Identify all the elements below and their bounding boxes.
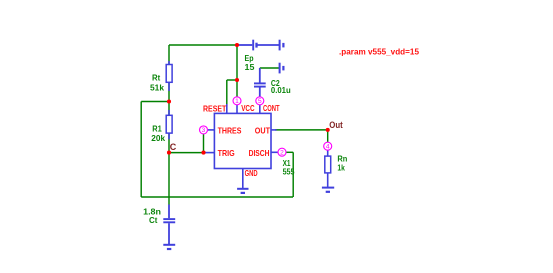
wire VCC drop	[236, 45, 238, 97]
pin stub DISCH	[271, 151, 278, 153]
resistor Rn	[325, 151, 331, 188]
junction dot at battery/VCC	[235, 43, 239, 47]
svg-text:TRIG: TRIG	[218, 148, 235, 158]
svg-text:1: 1	[235, 98, 239, 105]
wire TRIG from node C	[169, 152, 206, 154]
svg-text:2: 2	[280, 149, 284, 156]
svg-text:20k: 20k	[151, 133, 165, 143]
op-amp U1: 555 IC box X1	[214, 113, 271, 168]
svg-text:5: 5	[258, 98, 262, 105]
svg-text:15: 15	[245, 62, 255, 72]
svg-text:VCC: VCC	[241, 103, 254, 113]
wire DISCH from pin circle to vertical	[286, 151, 293, 153]
wire top rail from Rt top to battery junction	[169, 44, 237, 46]
svg-text:4: 4	[326, 143, 330, 150]
junction dot node C	[167, 151, 171, 155]
ground (below Rn)	[322, 188, 334, 192]
wire DISCH right vertical	[292, 152, 294, 197]
pin stub CONT	[259, 105, 261, 114]
svg-text:RESET: RESET	[203, 104, 227, 114]
svg-text:Ct: Ct	[149, 215, 158, 225]
wire RESET branch vertical	[226, 80, 228, 106]
capacitor C2	[254, 68, 266, 97]
wire C2 top to ground	[260, 67, 280, 69]
pin stub OUT	[271, 129, 277, 131]
svg-text:0.01u: 0.01u	[271, 85, 291, 95]
junction dot THRES/TRIG	[201, 151, 205, 155]
junction dot at RESET branch	[235, 78, 239, 82]
svg-text:THRES: THRES	[218, 126, 242, 136]
svg-text:OUT: OUT	[255, 126, 271, 136]
wire Out node down to pin4 circle	[327, 130, 329, 142]
ground (right of battery, sideways)	[280, 40, 284, 51]
svg-text:DISCH: DISCH	[249, 148, 270, 158]
resistor R1	[166, 110, 172, 139]
svg-text:C: C	[170, 142, 177, 152]
pin number 5 (CONT)	[256, 97, 264, 105]
pin stub THRES	[208, 129, 215, 131]
pin number 1 (VCC)	[233, 97, 241, 105]
pin number 2 (DISCH)	[278, 148, 286, 156]
ground (below Ct)	[163, 245, 175, 249]
pin number 4 (Out)	[324, 142, 332, 150]
junction dot Out node	[326, 128, 330, 132]
pin stub RESET	[226, 104, 228, 114]
svg-text:Rt: Rt	[152, 73, 160, 83]
wire RESET branch horizontal	[227, 79, 237, 81]
pin stub VCC	[236, 105, 238, 114]
ground (right of C2 wire, sideways)	[280, 63, 284, 74]
svg-text:1k: 1k	[337, 163, 345, 173]
wire main left vertical through Rt and R1	[168, 45, 170, 205]
wire bottom return	[141, 196, 293, 198]
ground (below GND pin)	[237, 189, 248, 193]
svg-text:555: 555	[283, 167, 295, 177]
svg-text:Out: Out	[329, 120, 342, 130]
svg-text:CONT: CONT	[263, 103, 280, 113]
pin stub TRIG	[206, 152, 215, 154]
svg-text:.param v555_vdd=15: .param v555_vdd=15	[339, 47, 419, 57]
svg-text:51k: 51k	[150, 83, 164, 93]
pin stub GND	[242, 169, 244, 189]
junction dot at Rt/R1	[167, 99, 171, 103]
svg-text:3: 3	[202, 127, 206, 134]
wire left feedback vertical	[140, 102, 142, 198]
resistor Rt	[166, 61, 172, 91]
svg-text:GND: GND	[245, 168, 258, 178]
wire OUT to Out node	[275, 129, 328, 131]
battery Ep	[237, 40, 280, 51]
wire THRES circle down to TRIG wire	[203, 134, 205, 153]
capacitor Ct	[163, 205, 175, 245]
pin number 3 (THRES)	[200, 126, 208, 134]
wire Rt/R1 junction to left feedback	[141, 101, 169, 103]
